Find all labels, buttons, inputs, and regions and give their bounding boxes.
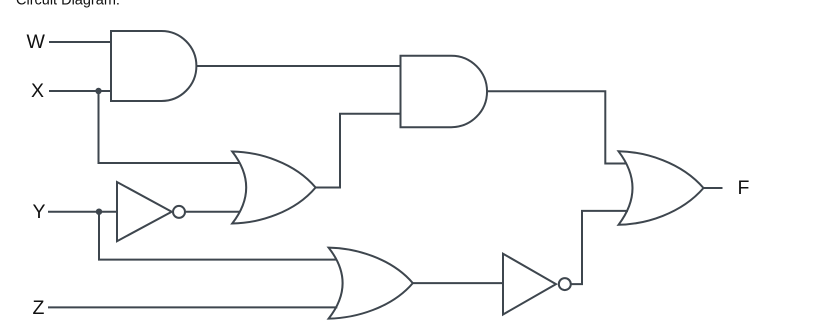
wire X input [49, 90, 111, 92]
wire U1 output to U2 top input [196, 65, 400, 67]
wire X branch to OR1 top input [99, 91, 241, 163]
and-gate U1 [111, 31, 196, 101]
and-gate U2 [401, 56, 488, 128]
svg-text:Z: Z [33, 297, 45, 319]
wire U6 output to U7 lower input [572, 211, 629, 284]
not-gate U3 on Y [117, 182, 185, 241]
svg-text:Y: Y [33, 201, 46, 223]
wire W input [49, 41, 111, 43]
wire U4 output to U2 lower input [316, 114, 401, 188]
svg-text:F: F [738, 177, 750, 199]
junction on X [95, 88, 101, 94]
junction on Y [96, 209, 102, 215]
wire U3 output to OR1 lower input [186, 211, 241, 213]
svg-text:W: W [27, 31, 46, 53]
not-gate U6 [503, 254, 571, 315]
wire U2 output to U7 top input [487, 91, 627, 163]
or-gate U7 [619, 151, 704, 225]
wire U7 output F [704, 187, 723, 189]
wire U5 output to U6 input [413, 282, 503, 284]
svg-text:X: X [31, 80, 44, 102]
svg-text:Circuit Diagram:: Circuit Diagram: [16, 0, 120, 9]
or-gate U5 [329, 248, 413, 319]
wire Y input [48, 211, 117, 213]
or-gate U4 [232, 152, 315, 224]
wire Y branch to OR2 top input [99, 212, 337, 260]
wire Z input [48, 306, 337, 308]
